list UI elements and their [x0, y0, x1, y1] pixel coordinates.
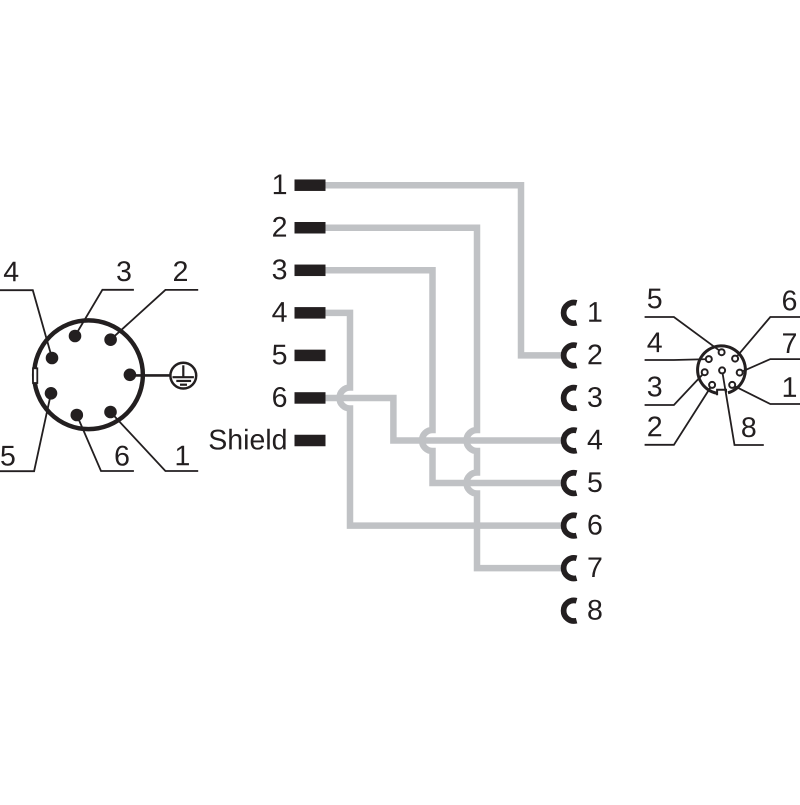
left connector label 3 [117, 261, 131, 281]
right connector pin lower-left (2) [709, 382, 715, 388]
socket contact 1 [564, 303, 577, 324]
right connector leader line pin2 [645, 385, 713, 445]
left connector leader line pin4 [0, 290, 52, 358]
left connector label 6 [116, 446, 129, 466]
socket contact 8 [564, 600, 577, 621]
right connector leader line pin6 [735, 317, 800, 359]
right connector label 4 [647, 332, 661, 352]
right connector keying notch [717, 390, 726, 395]
right connector leader line pin5 [645, 317, 722, 352]
terminal bar 2 [295, 222, 326, 234]
terminal label 5 [273, 345, 287, 365]
right connector label 7 [783, 333, 796, 353]
left connector pin 5 [45, 387, 58, 400]
right connector pin left (3) [702, 369, 708, 375]
right connector label 8 [742, 417, 755, 437]
left connector label 5 [1, 446, 15, 466]
left connector pin 3 [69, 330, 82, 343]
right connector label 5 [648, 289, 662, 309]
terminal bar 1 [295, 179, 326, 191]
socket contact 6 [564, 515, 577, 536]
protective earth symbol [170, 363, 196, 389]
terminal bar 5 [295, 350, 326, 362]
socket contact 7 [564, 558, 577, 579]
right connector pin upper-left (4) [706, 356, 712, 362]
left connector leader line pin2 [111, 290, 199, 340]
socket label 7 [588, 557, 601, 577]
right connector pin right (7) [737, 370, 743, 376]
terminal label 6 [273, 387, 286, 407]
right connector leader line pin8 [722, 370, 764, 445]
socket label 4 [588, 430, 602, 450]
left connector ground wire [130, 374, 172, 377]
left connector body circle [34, 320, 143, 429]
left connector pin 6 [71, 409, 84, 422]
right connector pin top (5) [719, 349, 725, 355]
socket contact 2 [564, 345, 577, 366]
right connector pin center (8) [719, 367, 725, 373]
right connector body circle with keyway gap [698, 346, 746, 393]
right connector pin upper-right (6) [732, 356, 738, 362]
socket label 1 [589, 302, 601, 322]
socket label 3 [588, 387, 602, 407]
terminal label Shield [210, 429, 286, 450]
right connector leader line pin4 [645, 358, 709, 361]
wire terminal4 to socket6 [322, 313, 562, 526]
terminal bar shield [295, 435, 326, 447]
left connector leader line pin3 [75, 290, 134, 336]
socket label 5 [588, 472, 602, 492]
left connector leader line pin6 [77, 415, 134, 471]
terminal label 4 [272, 302, 286, 322]
left connector ground pin [124, 369, 137, 382]
left connector label 1 [177, 446, 189, 466]
wire terminal2 to socket7 [322, 228, 562, 568]
left connector leader line pin1 [111, 412, 199, 471]
terminal label 3 [273, 259, 287, 279]
right connector label 2 [648, 416, 661, 436]
terminal bar 6 [295, 392, 326, 404]
left connector label 4 [4, 262, 18, 282]
socket label 2 [588, 344, 601, 364]
right connector label 3 [648, 376, 662, 396]
socket label 6 [588, 515, 601, 535]
wire terminal1 to socket2 [322, 185, 562, 355]
socket label 8 [588, 600, 601, 620]
right connector leader line pin7 [740, 359, 800, 373]
right connector leader line pin3 [645, 372, 705, 405]
terminal label 1 [274, 174, 286, 194]
left connector pin 2 [104, 333, 117, 346]
left connector pin 1 [104, 406, 117, 419]
left connector pin 4 [46, 352, 59, 365]
right connector leader line pin1 [732, 385, 800, 404]
terminal bar 3 [295, 265, 326, 277]
right connector pin lower-right (1) [729, 382, 735, 388]
left connector keying notch [33, 368, 37, 383]
terminal bar 4 [295, 307, 326, 319]
wire terminal3 to socket5 [322, 270, 562, 483]
socket contact 5 [564, 473, 577, 494]
left connector leader line pin5 [0, 393, 51, 471]
left connector label 2 [174, 261, 187, 281]
wire terminal6 to socket4 [322, 398, 562, 441]
right connector label 6 [783, 290, 796, 310]
socket contact 4 [564, 430, 577, 451]
terminal label 2 [273, 217, 286, 237]
right connector label 1 [784, 377, 796, 397]
socket contact 3 [564, 388, 577, 409]
